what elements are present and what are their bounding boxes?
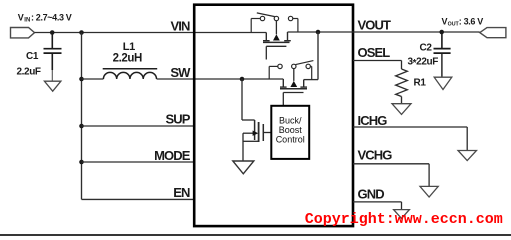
wire VCHG net	[353, 164, 429, 187]
svg-text:VIN: VIN	[171, 18, 190, 33]
svg-text:Copyright:www.eccn.com: Copyright:www.eccn.com	[305, 211, 503, 228]
inductor L1	[103, 69, 158, 79]
wire OSEL net	[353, 61, 402, 70]
svg-text:: 2.7~4.3 V: : 2.7~4.3 V	[31, 12, 72, 22]
junction VOUT net inside IC	[316, 30, 321, 35]
svg-text:V: V	[18, 12, 24, 22]
svg-text:C2: C2	[420, 42, 433, 53]
wire left rail	[81, 33, 83, 200]
ground (C2)	[434, 77, 452, 89]
wire MODE net	[82, 161, 195, 163]
transistor Q1 upper PMOS switch	[251, 13, 298, 60]
ground (C1)	[44, 81, 61, 91]
block U2 Buck/Boost Control	[271, 106, 309, 159]
svg-text:MODE: MODE	[154, 148, 191, 163]
junction C1 tap	[50, 30, 55, 35]
junction C2 tap	[439, 30, 444, 35]
ground (R1)	[392, 104, 411, 115]
junction rail tap on VIN	[79, 30, 84, 35]
wire SW net to IC and NMOS	[157, 78, 284, 80]
ground (NMOS source)	[233, 161, 254, 174]
junction rail/SW	[79, 77, 84, 82]
wire VIN net (pentagon to upper PMOS left terminal)	[35, 32, 267, 34]
svg-text:: 3.6 V: : 3.6 V	[459, 16, 483, 26]
op-amp U1 IC body	[194, 5, 353, 226]
svg-text:OUT: OUT	[448, 21, 460, 27]
connector J2 VOUT output	[480, 28, 506, 38]
wire SUP net	[82, 125, 195, 127]
bottom rule	[0, 234, 511, 236]
svg-text:ICHG: ICHG	[358, 113, 388, 128]
ground (GND pin)	[394, 210, 410, 219]
junction rail/MODE	[79, 160, 84, 165]
svg-text:OSEL: OSEL	[358, 45, 391, 60]
net label VOUT: 3.6 V	[442, 16, 484, 27]
ground (VCHG)	[420, 186, 438, 197]
ground (ICHG)	[458, 151, 477, 161]
svg-text:C1: C1	[26, 51, 39, 62]
svg-text:SW: SW	[170, 65, 191, 80]
svg-text:Buck/: Buck/	[279, 116, 302, 126]
junction rail/SUP	[79, 124, 84, 129]
svg-text:GND: GND	[358, 187, 385, 202]
svg-text:3*22uF: 3*22uF	[408, 56, 439, 69]
svg-text:R1: R1	[414, 78, 427, 89]
transistor Q2 lower PMOS switch	[269, 61, 313, 106]
wire VOUT to lower PMOS right terminal	[317, 32, 319, 80]
net label VIN: 2.7~4.3 V	[18, 12, 72, 23]
wire VOUT net	[288, 31, 480, 33]
wire R1 to ground	[401, 97, 403, 104]
wire GND net	[353, 202, 402, 210]
resistor R1	[396, 69, 408, 97]
svg-text:Control: Control	[276, 135, 305, 145]
wire EN net	[82, 198, 195, 200]
svg-text:2.2uF: 2.2uF	[17, 67, 41, 78]
svg-text:L1: L1	[123, 41, 135, 53]
svg-text:2.2uH: 2.2uH	[113, 52, 142, 64]
svg-text:EN: EN	[173, 185, 190, 200]
capacitor C2	[434, 32, 451, 77]
connector J1 VIN input	[11, 28, 35, 38]
svg-text:Boost: Boost	[279, 125, 303, 135]
transistor Q3 NMOS	[242, 79, 271, 161]
svg-text:IN: IN	[24, 18, 30, 24]
svg-text:VOUT: VOUT	[358, 17, 391, 32]
wire SW net left	[82, 78, 104, 80]
wire ICHG net	[353, 127, 467, 150]
junction SW/NMOS	[240, 77, 245, 82]
svg-text:SUP: SUP	[165, 111, 190, 126]
svg-text:VCHG: VCHG	[358, 148, 393, 163]
svg-text:V: V	[442, 16, 448, 26]
capacitor C1	[44, 33, 62, 82]
